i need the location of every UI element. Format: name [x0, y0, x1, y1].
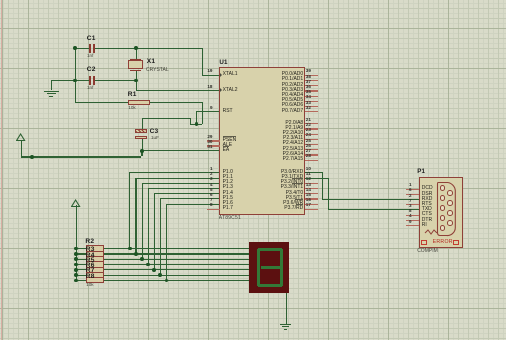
- segment b (top-right): [280, 249, 284, 268]
- wire resistor R7 to display: [104, 275, 249, 276]
- wire C2 right to crystal bottom: [95, 80, 135, 81]
- wire P1.4 horizontal: [154, 193, 220, 194]
- D-sub connector outline: [435, 181, 458, 238]
- wire resistor R7 left lead: [75, 275, 86, 276]
- pin number 26: [306, 144, 311, 149]
- junction R5 bus: [74, 263, 78, 267]
- D-sub hole left 1: [440, 185, 446, 191]
- wire P1.6 horizontal: [166, 204, 220, 205]
- COMPIM pin number 8: [409, 209, 412, 214]
- pin number 25: [306, 139, 311, 144]
- COMPIM pin number 7: [409, 199, 412, 204]
- value COMPIM: [417, 249, 438, 254]
- pin stub 35 (right): [305, 96, 319, 97]
- pin name P1.5: [223, 196, 233, 201]
- junction P1.4 to segment row: [152, 268, 156, 272]
- wire P1.0 vertical drop: [129, 172, 130, 248]
- pin name for pin 33: [282, 103, 303, 108]
- pin number 29: [207, 135, 212, 140]
- pin number 18: [207, 85, 212, 90]
- label ERROR: [433, 240, 453, 245]
- wire P1.3 vertical drop: [148, 188, 149, 264]
- COMPIM pin name DCD: [422, 186, 433, 191]
- wire crystal to XTAL2 drop: [136, 80, 137, 90]
- pin name for pin 25: [283, 141, 304, 146]
- pin stub 29 (left): [207, 140, 220, 141]
- pin number 1: [210, 167, 213, 172]
- COMPIM pin name TXD: [422, 207, 432, 212]
- pin number 33: [306, 101, 311, 106]
- junction crystal top: [134, 46, 138, 50]
- COMPIM pin name RXD: [422, 197, 433, 202]
- wire P1.5 vertical drop: [160, 198, 161, 274]
- COMPIM pin number 6: [409, 188, 412, 193]
- pin number 17: [306, 203, 311, 208]
- pin name for pin 27: [283, 152, 304, 157]
- ground near C2: [44, 91, 59, 92]
- pin number 11: [306, 172, 311, 177]
- pin name for pin 23: [283, 131, 304, 136]
- segment f (top-left): [257, 249, 261, 268]
- pin name P1.3: [223, 185, 233, 190]
- wire P1.3 horizontal: [148, 188, 220, 189]
- pin number 9: [210, 106, 213, 111]
- pin number 8: [210, 203, 213, 208]
- pin name XTAL2: [223, 88, 238, 93]
- wire RST drop: [196, 111, 197, 124]
- wire display common to ground: [286, 293, 287, 324]
- D-sub hole right 3: [447, 210, 453, 216]
- pin number 2: [210, 172, 213, 177]
- pin stub 14 (right): [305, 193, 319, 194]
- label R8: [86, 274, 95, 281]
- label R3: [86, 247, 95, 254]
- value C3 1uF: [151, 136, 159, 141]
- wire resistor R8 to display: [104, 280, 249, 281]
- junction R6 bus: [74, 268, 78, 272]
- wire power arrow stem: [21, 140, 22, 157]
- pin name for pin 11: [282, 175, 304, 180]
- pin stub 39 (right): [305, 75, 319, 76]
- pin stub 21 (right): [305, 123, 319, 124]
- wire R2 power bus: [76, 205, 77, 280]
- COMPIM pin stub 7: [406, 204, 420, 205]
- pin name ALE: [223, 143, 232, 148]
- wire resistor R4 left lead: [75, 259, 86, 260]
- pin number 19: [207, 69, 212, 74]
- pin name 31: [223, 148, 230, 153]
- pin name for pin 35: [282, 93, 303, 98]
- value R pack 10k: [86, 283, 93, 288]
- 7-segment display body: [249, 242, 289, 294]
- wire power arrow to C3 net: [21, 156, 142, 157]
- ERROR indicator left box: [421, 240, 427, 245]
- pin stub 8 (left): [207, 209, 220, 210]
- value R1 10k: [128, 106, 135, 111]
- COMPIM pin name RTS: [422, 202, 432, 207]
- label C3: [150, 129, 159, 136]
- wire P1.1 horizontal: [135, 178, 219, 179]
- COMPIM pin number 9: [409, 220, 412, 225]
- label U1: [219, 60, 227, 66]
- pin name for pin 26: [283, 147, 304, 152]
- label C1: [87, 36, 96, 43]
- pin stub 15 (right): [305, 198, 319, 199]
- wire resistor R6 left lead: [75, 269, 86, 270]
- wire EA step: [141, 150, 142, 156]
- wire RXD vertical: [322, 172, 323, 199]
- wire junction to C3 riser: [190, 118, 191, 124]
- segment d (bottom): [258, 284, 281, 288]
- resistor stack R2-R8 body: [86, 245, 105, 282]
- pin name for pin 16: [283, 201, 303, 206]
- resistor divider 6: [86, 277, 105, 278]
- op-amp U1 AT89C51 body: [219, 67, 304, 215]
- wire to XTAL1 drop: [202, 48, 203, 75]
- wire bus to R1: [75, 102, 128, 103]
- pin stub 34 (right): [305, 101, 319, 102]
- pin stub 16 (right): [305, 204, 319, 205]
- wire bus C1-C2-R1 vertical: [75, 48, 76, 103]
- wire resistor R3 to display: [104, 253, 249, 254]
- pin name for pin 22: [285, 126, 303, 131]
- junction R8 bus: [74, 279, 78, 283]
- pin name P1.4: [223, 191, 233, 196]
- wire C3 bottom lead: [142, 139, 143, 150]
- pin stub 27 (right): [305, 154, 319, 155]
- COMPIM pin number 1: [409, 183, 412, 188]
- pin stub 30 (left): [207, 145, 220, 146]
- pin number 28: [306, 154, 311, 159]
- pin number 22: [306, 123, 311, 128]
- junction C1 bus: [73, 46, 77, 50]
- wire ground drop: [51, 80, 52, 91]
- wire ground branch to C2 left: [51, 80, 89, 81]
- pin name P1.0: [223, 170, 233, 175]
- resistor R1 body: [128, 100, 151, 105]
- label R2: [85, 239, 94, 246]
- junction P1.2 to segment row: [140, 257, 144, 261]
- wire RXD to COMPIM: [322, 199, 420, 200]
- pin number 7: [210, 198, 213, 203]
- pin stub 26 (right): [305, 149, 319, 150]
- D-sub hole right 2: [447, 200, 453, 206]
- junction RST net: [195, 122, 199, 126]
- wire P1.2 horizontal: [142, 183, 220, 184]
- pin name for pin 17: [284, 206, 303, 211]
- pin name for pin 34: [282, 98, 303, 103]
- wire resistor R8 left lead: [75, 280, 86, 281]
- junction stray on power wire: [30, 155, 34, 159]
- capacitor C2 plates: [89, 76, 91, 85]
- D-sub hole left 5: [440, 225, 446, 231]
- capacitor C3 plates: [135, 129, 147, 133]
- D-sub hole left 2: [440, 195, 446, 201]
- pin number 35: [306, 90, 311, 95]
- junction P1.3 to segment row: [146, 263, 150, 267]
- capacitor C1 plates: [89, 44, 91, 53]
- pin name P1.1: [223, 175, 233, 180]
- wire C1 right to crystal-top and XTAL1 vertical: [95, 48, 201, 49]
- pin name for pin 15: [286, 196, 304, 201]
- pin number 12: [306, 177, 311, 182]
- wire RST: [196, 111, 219, 112]
- wire C1 left lead: [75, 48, 89, 49]
- wire resistor R5 left lead: [75, 264, 86, 265]
- segment g (middle): [261, 266, 280, 270]
- sheet border left edge: [1, 0, 2, 340]
- pin number 23: [306, 128, 311, 133]
- pin number 34: [306, 95, 311, 100]
- wire P1.5 horizontal: [160, 198, 220, 199]
- pin stub 33 (right): [305, 106, 319, 107]
- wire C3 top lead: [142, 118, 143, 129]
- label R6: [86, 263, 95, 270]
- pin name for pin 21: [285, 121, 303, 126]
- pin number 15: [306, 193, 311, 198]
- pin stub 25 (right): [305, 144, 319, 145]
- wire P1.2 vertical drop: [142, 183, 143, 259]
- pin number 16: [306, 198, 311, 203]
- clock mark XTAL2: [220, 88, 222, 92]
- pin stub 28 (right): [305, 160, 319, 161]
- pin name XTAL1: [223, 72, 238, 77]
- wire XTAL1: [202, 75, 220, 76]
- value C2 1nf: [87, 86, 93, 91]
- ERROR indicator right box: [453, 240, 459, 245]
- pin number 24: [306, 133, 311, 138]
- ground below display: [280, 324, 291, 325]
- junction P1.6 to segment row: [165, 279, 169, 283]
- pin name for pin 37: [282, 83, 303, 88]
- wire resistor R4 to display: [104, 259, 249, 260]
- junction C2 bus: [73, 79, 77, 83]
- junction crystal bottom: [134, 79, 138, 83]
- junction C3 bottom on EA net: [140, 149, 144, 153]
- pin name RST: [223, 109, 233, 114]
- wire resistor R2 to display: [104, 248, 249, 249]
- segment c (bottom-right): [280, 267, 284, 286]
- pin number 36: [306, 85, 311, 90]
- D-sub hole right 4: [447, 220, 453, 226]
- pin number 38: [306, 75, 311, 80]
- junction P1.0 to segment row: [128, 247, 132, 251]
- pin number 32: [306, 106, 311, 111]
- pin stub 38 (right): [305, 80, 319, 81]
- pin number 5: [210, 188, 213, 193]
- pin number 10: [306, 167, 311, 172]
- D-sub hole right 1: [447, 190, 453, 196]
- label C2: [87, 67, 96, 74]
- pin number 37: [306, 80, 311, 85]
- junction R4 bus: [74, 257, 78, 261]
- resistor divider 5: [86, 272, 105, 273]
- resistor divider 4: [86, 267, 105, 268]
- pin stub 32 (right): [305, 111, 319, 112]
- wire crystal bottom pin: [136, 70, 137, 80]
- COMPIM pin stub 6: [406, 194, 420, 195]
- pin name for pin 12: [281, 180, 304, 185]
- COMPIM pin stub 4: [406, 220, 420, 221]
- pin number 14: [306, 188, 311, 193]
- wire TXD vertical: [328, 178, 329, 210]
- COMPIM pin stub 1: [406, 189, 420, 190]
- label R4: [86, 253, 95, 260]
- wire resistor R3 left lead: [75, 253, 86, 254]
- COMPIM pin name RI: [422, 223, 427, 228]
- pin stub 36 (right): [305, 90, 319, 91]
- value C1 1nf: [87, 54, 93, 59]
- wire TXD to COMPIM: [328, 209, 420, 210]
- pin name P1.2: [223, 180, 233, 185]
- pin stub 13 (right): [305, 188, 319, 189]
- pin name P1.6: [223, 201, 233, 206]
- wire R1 to junction drop: [202, 102, 203, 123]
- pin number 13: [306, 183, 311, 188]
- wire crystal top pin: [136, 48, 137, 59]
- wire P3.0 RXD out: [305, 172, 322, 173]
- COMPIM pin stub 9: [406, 225, 420, 226]
- pin name for pin 36: [282, 88, 303, 93]
- wire P1.4 vertical drop: [154, 193, 155, 269]
- power terminal arrow (EA net): [16, 133, 26, 142]
- junction P1.1 to segment row: [134, 252, 138, 256]
- pin number 6: [210, 193, 213, 198]
- pin number 31: [207, 145, 212, 150]
- pin name for pin 13: [281, 185, 304, 190]
- wire C3 top horizontal: [142, 118, 190, 119]
- pin number 30: [207, 140, 212, 145]
- COMPIM pin number 4: [409, 214, 412, 219]
- wire resistor R6 to display: [104, 269, 249, 270]
- pin stub 24 (right): [305, 139, 319, 140]
- D-sub hole left 3: [440, 205, 446, 211]
- wire P3.1 TXD out: [305, 178, 328, 179]
- resistor divider 3: [86, 261, 105, 262]
- value AT89C51: [219, 216, 241, 221]
- clock mark XTAL1: [220, 73, 222, 77]
- crystal X1 body: [130, 59, 141, 60]
- label X1: [147, 59, 155, 66]
- segment e (bottom-left): [257, 267, 261, 286]
- pin number 3: [210, 177, 213, 182]
- wire resistor R5 to display: [104, 264, 249, 265]
- power terminal arrow (R2 bus): [71, 199, 81, 208]
- pin name for pin 24: [283, 136, 303, 141]
- pin name 29: [223, 138, 237, 143]
- COMPIM squiggle: [424, 228, 438, 236]
- wire junction horizontal: [190, 124, 202, 125]
- wire P1.1 vertical drop: [135, 178, 136, 254]
- label R5: [86, 258, 95, 265]
- value CRYSTAL: [146, 68, 169, 73]
- label P1: [417, 169, 425, 175]
- pin stub 37 (right): [305, 85, 319, 86]
- pin name for pin 39: [282, 72, 303, 77]
- pin name for pin 32: [282, 109, 303, 114]
- resistor divider 1: [86, 251, 105, 252]
- resistor divider 2: [86, 256, 105, 257]
- pin name for pin 10: [281, 170, 303, 175]
- pin number 27: [306, 149, 311, 154]
- pin number 21: [306, 118, 311, 123]
- segment a (top): [258, 248, 281, 252]
- junction R2 bus: [74, 247, 78, 251]
- junction R3 bus: [74, 252, 78, 256]
- wire R1 right: [150, 102, 201, 103]
- label R1: [128, 92, 137, 99]
- junction R7 bus: [74, 273, 78, 277]
- wire XTAL2: [136, 90, 220, 91]
- junction P1.5 to segment row: [158, 273, 162, 277]
- COMPIM pin name DSR: [422, 192, 433, 197]
- COMPIM pin number 3: [409, 204, 412, 209]
- D-sub hole left 4: [440, 215, 446, 221]
- pin name for pin 14: [286, 191, 304, 196]
- pin stub 12 (right): [305, 183, 319, 184]
- COMPIM pin number 2: [409, 194, 412, 199]
- pin stub 23 (right): [305, 134, 319, 135]
- COMPIM pin name DTR: [422, 218, 432, 223]
- pin name for pin 38: [282, 77, 303, 82]
- wire P1.0 horizontal: [129, 172, 219, 173]
- pin name P1.7: [223, 206, 233, 211]
- label R7: [86, 268, 95, 275]
- pin number 39: [306, 69, 311, 74]
- COMPIM pin name CTS: [422, 212, 432, 217]
- connector P1 COMPIM body: [419, 177, 463, 248]
- pin number 4: [210, 183, 213, 188]
- COMPIM pin stub 8: [406, 215, 420, 216]
- pin name for pin 28: [283, 157, 304, 162]
- pin stub 17 (right): [305, 209, 319, 210]
- wire resistor R2 left lead: [75, 248, 86, 249]
- wire EA: [141, 150, 219, 151]
- pin stub 22 (right): [305, 128, 319, 129]
- wire P1.6 vertical drop: [166, 204, 167, 280]
